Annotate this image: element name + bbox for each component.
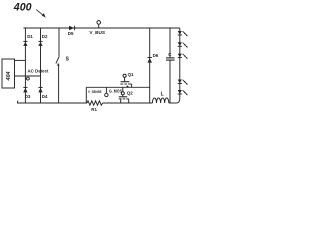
switch S lower wire (58, 66, 60, 104)
LED 4 (178, 80, 188, 85)
svg-text:C: C (168, 52, 172, 57)
svg-text:G_MOS: G_MOS (109, 88, 122, 93)
svg-text:L: L (161, 92, 164, 98)
svg-text:Q1: Q1 (128, 72, 134, 77)
capacitor C (166, 52, 175, 60)
diode D6 column wire (149, 28, 151, 103)
svg-text:D5: D5 (68, 31, 74, 36)
capacitor C column wire upper (169, 28, 171, 58)
switch S upper wire (58, 28, 60, 57)
diode D6 (147, 53, 158, 63)
svg-text:D2: D2 (42, 34, 48, 39)
svg-text:D6: D6 (153, 53, 159, 58)
transistor Q2 (119, 95, 129, 103)
diode D2 (38, 34, 48, 46)
LED 5 (178, 90, 188, 95)
svg-text:D3: D3 (25, 94, 31, 99)
top rail wire (23, 27, 179, 29)
AC Detect terminal (25, 78, 26, 80)
inductor L (152, 98, 168, 103)
svg-text:D1: D1 (27, 34, 33, 39)
LED 1 (178, 31, 188, 36)
leader arrow (36, 10, 44, 16)
node wire Q1 source / G_MOS net (86, 86, 149, 88)
switch S arrow (57, 63, 59, 66)
diode D3 (23, 87, 31, 98)
svg-text:S: S (66, 56, 70, 62)
bridge right column wire (40, 28, 42, 103)
svg-text:V_SENSE: V_SENSE (88, 89, 102, 94)
svg-text:D4: D4 (42, 94, 48, 99)
V_SENSE terminal (105, 87, 107, 93)
switch S blade (56, 57, 59, 64)
resistor R1 (87, 101, 103, 105)
diode D5 (68, 26, 75, 37)
transistor Q2 gate terminal (122, 87, 124, 91)
AC source box 404 (2, 59, 15, 88)
diode D1 (23, 34, 33, 46)
transistor Q1 gate terminal (123, 74, 126, 77)
svg-text:AC Detect: AC Detect (28, 68, 50, 73)
LED 2 (178, 42, 188, 47)
svg-text:404: 404 (6, 72, 12, 82)
svg-text:400: 400 (13, 2, 32, 14)
svg-text:V_BUS: V_BUS (89, 30, 105, 35)
svg-text:Q2: Q2 (127, 91, 133, 96)
capacitor C column wire lower (169, 60, 171, 103)
V_BUS terminal (97, 21, 101, 25)
wire V_SENSE column (85, 87, 87, 103)
bottom rail wire left (18, 101, 87, 103)
LED string column wire (176, 28, 179, 103)
svg-text:R1: R1 (91, 107, 97, 112)
bridge left column wire (24, 28, 26, 103)
bottom rail wire middle (103, 102, 153, 104)
wire AC source to bridge right column (15, 75, 41, 77)
bottom rail wire right (169, 102, 177, 104)
diode D4 (38, 87, 48, 98)
wire AC source to bridge left column (15, 59, 26, 61)
LED 3 (178, 54, 188, 59)
transistor Q1 (120, 77, 131, 87)
